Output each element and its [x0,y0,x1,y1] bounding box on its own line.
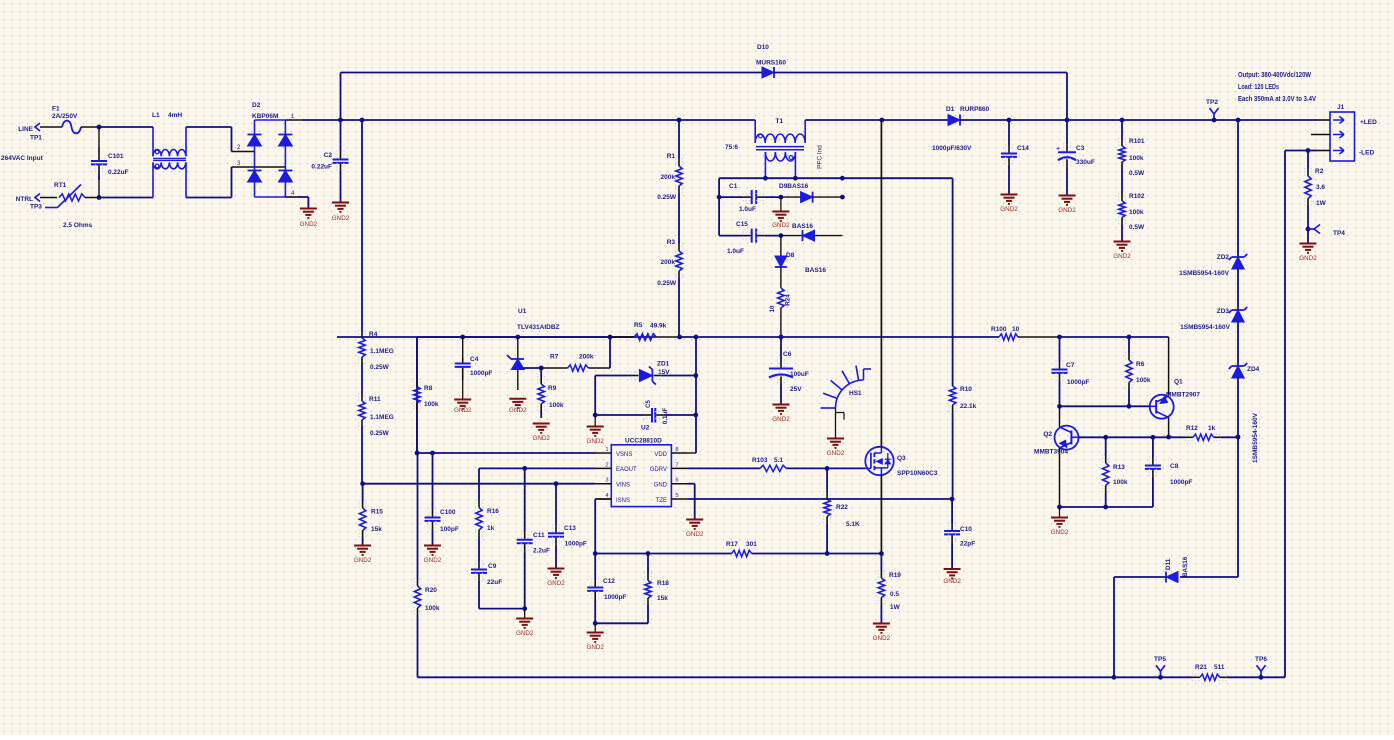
svg-text:TP4: TP4 [1333,230,1345,237]
node junction TP4 [1306,227,1311,232]
svg-text:1.1MEG: 1.1MEG [370,414,394,421]
svg-text:1.0uF: 1.0uF [727,248,744,255]
svg-text:R18: R18 [657,580,669,587]
svg-text:F1: F1 [52,106,60,113]
svg-text:0.1uF: 0.1uF [662,408,669,425]
svg-text:RURP860: RURP860 [960,106,990,113]
svg-text:200k: 200k [661,259,676,266]
ground GND2 C12 [594,623,596,632]
transistor Q2 MMBT3904 NPN [1055,426,1079,450]
node junction D11 riser bottom [1112,675,1117,680]
node junction C8 top [1151,435,1156,440]
resistor R15 15k [362,484,364,501]
svg-text:22pF: 22pF [960,541,975,548]
svg-text:2.2uF: 2.2uF [533,548,550,555]
svg-text:25V: 25V [790,386,802,393]
wire R7 up to rail [609,337,611,368]
svg-text:2.5 Ohms: 2.5 Ohms [63,222,93,229]
wire row to R10 corner [842,177,952,179]
wire bottom rail left [418,676,1115,678]
resistor R6 100k [1128,337,1130,353]
wire R17 row [595,553,731,555]
svg-text:GND2: GND2 [424,557,442,564]
svg-text:GND2: GND2 [827,450,845,457]
resistor R100 10 [999,334,1018,340]
capacitor C6 100uF 25V [780,337,782,361]
svg-text:VDD: VDD [654,452,667,458]
svg-text:10: 10 [769,305,776,313]
fuse F1 2A/250V [62,121,81,134]
diode D8 BAS16 [780,236,782,256]
resistor R20 100k [417,453,419,579]
node junction R2 top [1306,148,1311,153]
node junction R8 bottom [415,451,420,456]
svg-text:BAS16: BAS16 [805,267,826,274]
wire C14 to C3 [1009,119,1067,121]
node junction R6 bottom [1127,404,1132,409]
node junction R6 top [1127,335,1132,340]
svg-text:GND2: GND2 [332,215,350,222]
node junction ZD2 column [1236,118,1241,123]
svg-text:0.25W: 0.25W [657,194,677,201]
svg-text:100k: 100k [425,605,440,612]
svg-text:J1: J1 [1337,104,1345,111]
ground GND2 aux [780,197,782,211]
resistor R24 10 [780,268,782,289]
wire rail to Q1 emitter corner [1129,336,1169,338]
node junction R1 column [677,118,682,123]
svg-text:100k: 100k [549,402,564,409]
svg-text:L1: L1 [152,112,160,119]
svg-text:C15: C15 [736,221,748,228]
svg-text:ZD3: ZD3 [1217,308,1230,315]
svg-text:0.25W: 0.25W [657,280,677,287]
svg-text:C4: C4 [470,356,479,363]
wire TP2 to ZD2 junction [1214,119,1238,121]
resistor R18 15k [647,554,649,574]
svg-text:C100: C100 [440,509,456,516]
svg-text:0.22uF: 0.22uF [311,164,332,171]
svg-text:C5: C5 [646,400,652,408]
ground GND2 C4 [462,380,464,399]
node junction C11 bottom gnd [522,606,527,611]
resistor R1 200k 0.25W [678,120,680,159]
node junction C14 [1007,118,1012,123]
node junction R101 [1120,118,1125,123]
connector J1 [1330,112,1355,161]
test point TP5 [1160,671,1162,677]
node junction LINE/C101 [97,125,102,130]
svg-text:C2: C2 [324,152,333,159]
svg-text:C7: C7 [1066,362,1075,369]
wire up to bridge AC2 [231,167,233,198]
svg-text:NTRL: NTRL [16,196,33,203]
wire main rail to J1 pin1 [1238,119,1317,121]
node junction NTRL/C101 [97,195,102,200]
svg-text:BAS16: BAS16 [792,223,813,230]
svg-text:D11: D11 [1165,558,1172,570]
capacitor C12 1000pF [594,554,596,580]
ground GND2 C10 [944,568,961,570]
capacitor C15 1.0uF [719,235,744,237]
svg-text:D2: D2 [252,102,261,109]
svg-text:0.25W: 0.25W [370,430,390,437]
svg-text:1.1MEG: 1.1MEG [370,348,394,355]
svg-text:22uF: 22uF [487,579,502,586]
node junction R13 top [1103,435,1108,440]
svg-text:D10: D10 [757,44,769,51]
wire rail C4 to U1 [463,336,518,338]
ground GND2 R15 [354,545,371,547]
svg-text:100k: 100k [1113,479,1128,486]
svg-text:330uF: 330uF [1076,159,1095,166]
svg-text:0.25W: 0.25W [370,364,390,371]
capacitor C5 0.1uF [595,414,644,416]
svg-text:ZD2: ZD2 [1217,254,1230,261]
svg-text:GND2: GND2 [943,578,961,585]
node junction secondary right pin [793,176,798,181]
svg-text:T1: T1 [776,118,784,125]
svg-text:KBP06M: KBP06M [252,113,278,120]
svg-text:C1: C1 [729,183,738,190]
node junction VDD riser [694,335,699,340]
wire HS1 foot [835,408,837,438]
svg-text:22.1k: 22.1k [960,403,977,410]
node junction C4 top [460,335,465,340]
node junction C100 top [430,451,435,456]
svg-text:SPP10N60C3: SPP10N60C3 [897,470,938,477]
wire NTRL to RT1 [40,197,57,199]
capacitor C14 [1008,120,1010,146]
wire Q3 source [880,475,882,554]
svg-text:GND2: GND2 [586,644,604,651]
wire J1 pin2 stub [1311,134,1330,136]
svg-text:15k: 15k [371,526,382,533]
svg-text:100k: 100k [424,401,439,408]
svg-text:GND2: GND2 [354,557,372,564]
svg-text:1000pF: 1000pF [604,594,626,601]
test point TP4 [1308,228,1314,230]
svg-text:TLV431AIDBZ: TLV431AIDBZ [517,324,560,331]
wire TZE row [688,498,953,500]
ground GND2 HS1 [827,438,844,440]
svg-text:GND: GND [654,483,668,489]
node junction C7 bottom [1057,404,1062,409]
wire main rail to T1 [679,119,755,121]
ground GND2 R2 [1300,243,1317,245]
resistor R102 100k 0.5W [1121,165,1123,194]
svg-text:200k: 200k [579,354,594,361]
svg-text:301: 301 [746,541,757,548]
svg-text:GND2: GND2 [516,630,534,637]
node junction C2/D10 riser [338,118,343,123]
svg-text:-LED: -LED [1359,150,1374,157]
svg-text:1W: 1W [890,604,901,611]
wire bridge pin1 to main rail [285,119,302,121]
resistor R17 301 [732,550,752,556]
node junction R22 top [825,466,830,471]
resistor R21 511 [1161,676,1193,678]
wire Q2 collector [1059,406,1061,427]
svg-text:TP3: TP3 [30,204,42,211]
svg-text:MURS160: MURS160 [756,60,786,67]
capacitor C11 2.2uF [524,468,526,531]
svg-text:2: 2 [605,462,608,468]
svg-text:200k: 200k [661,174,676,181]
svg-text:GND2: GND2 [873,635,891,642]
svg-text:R100: R100 [991,326,1007,333]
svg-text:TP5: TP5 [1154,656,1166,663]
diode D11 BAS16 [1166,572,1178,583]
resistor R5 49.9k [610,336,627,338]
resistor R16 1k [478,468,480,500]
node junction Q2 emitter bottom [1057,505,1062,510]
wire Q3 drain [880,120,882,447]
resistor R2 3.6 1W [1307,151,1309,170]
wire ISNS row [595,498,611,500]
svg-text:R103: R103 [752,457,768,464]
diode D1 RURP860 [948,115,960,126]
svg-text:GND2: GND2 [686,531,704,538]
wire EAOUT row [479,467,595,469]
wire VINS row [363,483,596,485]
resistor R19 0.5 1W [880,554,882,572]
svg-text:C12: C12 [603,578,615,585]
svg-text:UCC28810D: UCC28810D [625,438,662,445]
test point TP6 [1260,671,1262,677]
svg-text:R5: R5 [634,322,643,329]
svg-text:1000pF: 1000pF [565,541,587,548]
svg-text:R9: R9 [548,385,557,392]
svg-text:8: 8 [675,447,678,453]
node junction box right top [840,176,845,181]
wire VDD riser segments [695,337,697,453]
svg-text:GND2: GND2 [454,407,472,414]
svg-text:C14: C14 [1017,145,1029,152]
svg-text:100k: 100k [1129,155,1144,162]
svg-text:- 264VAC Input: - 264VAC Input [0,155,44,162]
thermistor RT1 2.5 Ohms [59,194,85,201]
svg-text:C3: C3 [1076,145,1085,152]
resistor R12 1k [1169,436,1186,438]
svg-text:ISNS: ISNS [616,498,630,504]
wire D11 riser to bottom rail [1113,577,1115,677]
svg-text:HS1: HS1 [849,390,862,397]
svg-text:1000pF: 1000pF [470,370,492,377]
svg-text:Each 350mA at 3.0V to 3.4V: Each 350mA at 3.0V to 3.4V [1238,94,1316,103]
svg-text:C11: C11 [533,532,545,539]
svg-text:1SMB5954-160V: 1SMB5954-160V [1252,412,1259,463]
diode BAS16 lower [781,235,803,237]
wire VSNS row [417,452,595,454]
wire RT1 to C101 bottom junction [85,197,99,199]
svg-text:R101: R101 [1129,138,1145,145]
capacitor C100 100pF [432,453,434,510]
svg-text:TP2: TP2 [1206,99,1218,106]
ground GND2 C5 [594,415,596,426]
svg-text:75:6: 75:6 [725,144,738,151]
svg-text:D9BAS16: D9BAS16 [779,183,809,190]
svg-text:R6: R6 [1136,361,1145,368]
diode D10 MURS160 [762,67,774,78]
ground GND2 C13 [548,568,565,570]
svg-text:R16: R16 [487,508,499,515]
svg-text:R21: R21 [1195,664,1207,671]
wire bottom rail to TP5 [1114,676,1161,678]
svg-text:VSNS: VSNS [616,452,632,458]
svg-text:1k: 1k [1208,425,1216,432]
node junction C11 top [522,466,527,471]
test point TP2 [1213,114,1215,120]
svg-text:D8: D8 [786,252,795,259]
svg-text:C9: C9 [488,563,497,570]
capacitor C8 1000pF [1152,437,1154,457]
resistor R7 200k [541,367,567,369]
resistor R11 1.1MEG 0.25W [361,380,363,394]
svg-text:5: 5 [675,493,678,499]
wire C9 bottom row [479,608,525,610]
svg-text:+LED: +LED [1360,119,1377,126]
svg-text:GND2: GND2 [1058,207,1076,214]
wire ZD1 left down [594,376,596,416]
svg-text:GND2: GND2 [1113,253,1131,260]
svg-text:R102: R102 [1129,193,1145,200]
wire rail R24 to R100 [781,336,999,338]
svg-text:VINS: VINS [616,483,630,489]
svg-text:R12: R12 [1186,425,1198,432]
svg-text:4mH: 4mH [168,112,182,119]
node junction R7 up [608,335,613,340]
svg-text:2A/250V: 2A/250V [52,113,78,120]
node junction C7 top [1057,335,1062,340]
svg-text:R13: R13 [1113,464,1125,471]
wire rail U1 to R7 corner [518,336,610,338]
node junction R17 row left [593,551,598,556]
wire fuse to C101 junction [81,126,99,128]
ground GND2 C100 [424,545,441,547]
diode D9 BAS16 [781,196,801,198]
svg-text:5.1: 5.1 [774,457,783,464]
svg-text:511: 511 [1214,664,1225,671]
svg-text:R11: R11 [369,396,381,403]
capacitor C1 1.0uF [719,196,744,198]
ground GND2 C3 [1059,195,1076,197]
svg-text:GND2: GND2 [772,222,790,229]
capacitor C13 1000pF [555,484,557,526]
wire ZD4 to R12 junction [1237,378,1239,437]
wire ZD2 to ZD3 [1237,269,1239,310]
wire J1 pin3 to R2 junction [1317,150,1330,152]
capacitor C9 22uF [478,545,480,562]
wire Q2 emitter [1059,448,1061,507]
wire rail VDD riser to R24 [696,336,781,338]
svg-text:0.5W: 0.5W [1129,224,1145,231]
node LINE input connector [35,123,40,131]
svg-text:R17: R17 [726,541,738,548]
svg-text:GND2: GND2 [586,438,604,445]
node junction Q3 drain column [880,118,885,123]
wire main rail segment A [341,119,363,121]
wire L1 top to bridge [186,126,232,128]
wire Q2 base row [1079,436,1106,438]
resistor R103 5.1 [760,465,787,471]
svg-text:3.6: 3.6 [1316,184,1325,191]
node junction R22 bottom [825,551,830,556]
ground GND2 bridge [300,208,317,210]
svg-text:R1: R1 [667,153,676,160]
capacitor C7 1000pF [1059,337,1061,362]
svg-text:0.22uF: 0.22uF [108,169,129,176]
ground GND2 C6 [773,404,790,406]
zener ZD4 1SMB5954-160V [1232,366,1245,378]
node junction ZD1 right [693,373,698,378]
wire ZD3 to ZD4 [1237,322,1239,366]
svg-text:R8: R8 [424,385,433,392]
svg-text:GND2: GND2 [509,407,527,414]
ground GND2 Q2 [1059,507,1061,517]
node junction R18 top [646,551,651,556]
wire R101 junction to TP2 [1122,119,1214,121]
ground GND2 C2 [332,202,349,204]
node junction R3 bottom on rail [677,335,682,340]
node junction R9 top [539,366,544,371]
wire D10 rail left segment [341,72,763,74]
node junction C5 right [693,413,698,418]
svg-text:RT1: RT1 [54,182,67,189]
ground GND2 C9/C11 [524,609,526,618]
wire bridge pin4 to ground [285,196,298,198]
svg-text:MMBT3904: MMBT3904 [1034,449,1068,456]
wire Q1 collector [1168,418,1170,438]
svg-text:R15: R15 [371,509,383,516]
resistor R10 22.1k [949,386,955,405]
ground GND2 U2 [686,519,703,521]
node junction C12 bottom [593,621,598,626]
wire D1 to C14 [960,119,1009,121]
resistor R22 5.1K [826,468,828,492]
svg-text:+: + [1056,146,1060,153]
svg-text:C10: C10 [960,526,972,533]
capacitor C3 330uF polarized [1066,120,1068,144]
zener ZD3 1SMB5954-160V [1232,310,1245,322]
svg-text:GND2: GND2 [772,416,790,423]
svg-text:R7: R7 [550,354,559,361]
node junction R19 top [879,551,884,556]
wire rail to C7 junction [1060,336,1130,338]
zener ZD1 15V [595,375,631,377]
wire junction to D1 [882,119,948,121]
svg-text:EAOUT: EAOUT [616,467,637,473]
svg-text:1: 1 [605,447,608,453]
resistor R13 100k [1105,437,1107,456]
node junction R24/C6 on VDD rail [779,335,784,340]
wire U1 ref to R9 junction [523,367,541,369]
node junction C10 top [950,497,955,502]
wire D10 rail right segment [774,72,1067,74]
resistor R9 100k [540,368,542,377]
wire C3 to R101 [1067,119,1122,121]
svg-text:ZD4: ZD4 [1247,366,1260,373]
svg-text:R3: R3 [667,239,676,246]
resistor R3 200k 0.25W [678,220,680,244]
wire VDD riser to U2 pin8 [688,452,697,454]
svg-text:5.1K: 5.1K [846,521,860,528]
svg-text:R20: R20 [425,587,437,594]
svg-text:U2: U2 [641,425,650,432]
svg-text:Load: 120 LEDs: Load: 120 LEDs [1238,82,1279,91]
wire GDRV row [688,467,760,469]
wire rail to VDD riser [680,336,696,338]
